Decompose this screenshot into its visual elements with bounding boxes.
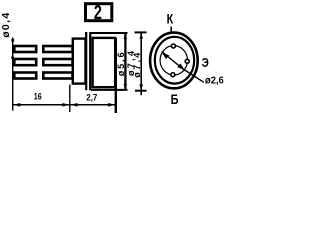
extension line middle (lead/body junction) [69, 85, 71, 113]
arrow 16 left [13, 103, 20, 107]
dimension &#248;7,4 of bottom view: top arrow [139, 33, 143, 39]
svg-text:К: К [167, 11, 174, 26]
inner circle of bottom view (can ø5,6) [155, 37, 194, 84]
svg-text:ø0,4: ø0,4 [0, 13, 12, 38]
svg-text:16: 16 [34, 92, 42, 102]
lead 2 (middle lead, segment after break) [43, 59, 72, 65]
lead 3 (bottom lead, segment before break) [14, 73, 36, 79]
flange left line [85, 32, 87, 90]
dimension ø5,6 line (can right edge extended down) [115, 38, 117, 113]
dimension &#248;7,4 of bottom view: vertical line [140, 32, 142, 95]
dimension ø5,6 top arrow [114, 39, 118, 45]
header (lead seal stub of can) [73, 39, 86, 84]
dimension ø2,6 leader to label [185, 70, 204, 82]
arrow 16 right [62, 103, 69, 107]
dimension ø0,4 upper arrow [11, 39, 15, 44]
dimension &#248;7,4 of bottom view: bottom arrow [139, 84, 143, 90]
dimension ø2,6 upper-left arrow [162, 53, 169, 60]
position number box [86, 4, 112, 21]
dimension ø2,6 lower-right arrow [177, 63, 184, 70]
dimension ø7,4 top arrow [124, 34, 128, 40]
lead 2 (middle lead, segment before break) [14, 59, 36, 65]
extension line from flange top [91, 32, 128, 34]
outer circle of bottom view (flange ø7,4) [150, 33, 198, 89]
dimension ø7,4 line [124, 33, 126, 90]
lead 1 (top lead, segment before break) [14, 46, 36, 52]
svg-text:2,7: 2,7 [86, 92, 97, 103]
extension line from flange bottom [91, 89, 128, 91]
dimension &#248;7,4 of bottom view: bottom extension bar [135, 90, 147, 92]
lead 3 (bottom lead, segment after break) [43, 73, 72, 79]
svg-text:ø2,6: ø2,6 [205, 75, 224, 87]
lead 1 (top lead, segment after break) [43, 46, 72, 52]
dimension line 16 and 2,7 [13, 104, 116, 106]
svg-text:ø7,4: ø7,4 [132, 53, 142, 78]
pin К (collector pin, top) [171, 44, 175, 48]
dimension ø5,6 bottom arrow [114, 81, 118, 87]
svg-text:2: 2 [94, 0, 102, 23]
tab mark on outer circle top [170, 27, 172, 33]
pin Э (emitter pin, right) [185, 59, 189, 63]
pin circle ø2,6 (thin) [160, 46, 187, 75]
svg-text:Б: Б [171, 92, 179, 108]
arrow 2,7 right [108, 103, 115, 107]
can body [93, 38, 116, 87]
arrow 2,7 left [70, 103, 77, 107]
dimension ø0,4 lower arrow [11, 53, 15, 58]
pin Б (base pin, bottom) [171, 73, 175, 77]
dimension &#248;7,4 of bottom view: top extension bar [135, 31, 147, 33]
dimension ø7,4 bottom arrow [124, 84, 128, 90]
dimension ø2,6 diagonal line with leader [162, 52, 185, 71]
flange right line [89, 32, 91, 90]
extension line left (lead tip, full height) [12, 38, 14, 111]
svg-text:Э: Э [202, 56, 209, 70]
